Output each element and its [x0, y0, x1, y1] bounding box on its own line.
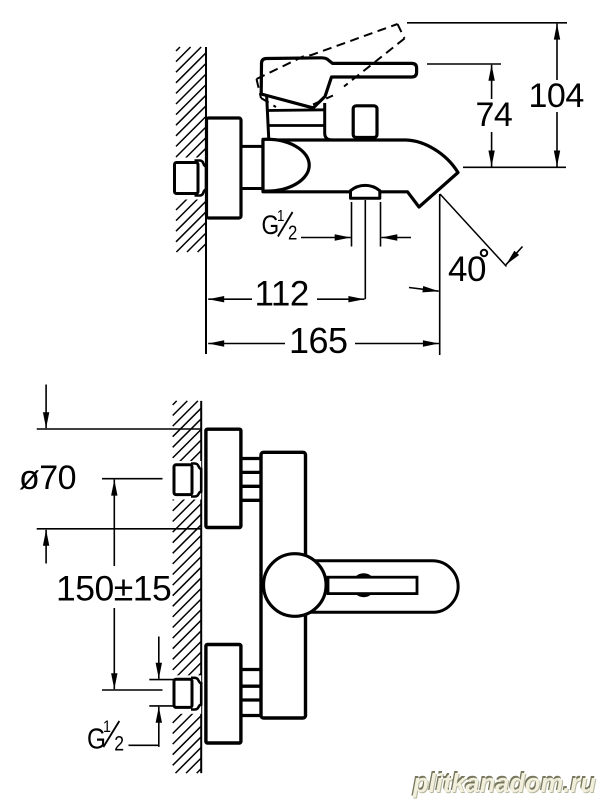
svg-text:2: 2	[114, 732, 123, 756]
svg-text:165: 165	[289, 320, 348, 361]
spout body (side)	[263, 140, 458, 207]
wall hatch (top view)	[176, 47, 206, 252]
wall hatch (front view)	[173, 401, 202, 773]
G1/2 inlet square (side)	[175, 163, 199, 194]
handle raised position (dashed)	[257, 24, 405, 107]
svg-text:1: 1	[277, 208, 284, 225]
white gaps for inlets	[172, 461, 202, 500]
dim 104 vertical	[556, 24, 558, 80]
lower inlet centerline	[102, 689, 163, 691]
40 deg angle line	[440, 194, 507, 267]
cartridge collar under handle	[267, 95, 269, 140]
esc bottom reference line	[37, 528, 202, 530]
svg-text:112: 112	[255, 275, 309, 314]
svg-text:74: 74	[476, 96, 513, 134]
G1/2 bottom: lower arrow	[158, 707, 160, 747]
40 deg leader arrows	[506, 247, 523, 265]
esc top reference line	[37, 428, 202, 430]
upper escutcheon	[206, 429, 241, 527]
spout tip extension vertical	[439, 194, 441, 355]
label G1/2 bottom	[87, 718, 124, 756]
lower inlet square	[174, 679, 192, 707]
G1/2 dim arrows	[301, 237, 351, 239]
lever grip plate	[328, 577, 417, 593]
upper inlet square	[174, 465, 192, 495]
dim 74 vertical	[491, 65, 493, 99]
label G1/2 top	[262, 208, 298, 244]
shower outlet centerline	[364, 200, 366, 299]
G1/2 inlet collar (side)	[195, 161, 207, 196]
svg-text:ø70: ø70	[19, 459, 76, 497]
G1/2 thread lines	[149, 679, 173, 681]
svg-text:150±15: 150±15	[56, 569, 171, 609]
extension line: lever top (74)	[427, 63, 501, 65]
extension line: spout bottom reference	[463, 166, 566, 168]
dim 165 line	[208, 343, 285, 345]
knob circle	[264, 554, 327, 617]
watermark plitkanadom.ru	[413, 772, 603, 798]
diverter knob	[357, 138, 373, 141]
dim 150 vertical	[113, 480, 115, 566]
body flange	[241, 146, 263, 188]
G1/2 extension lines	[351, 202, 353, 247]
shower outlet bump under body	[351, 185, 380, 198]
G1/2 leader	[129, 744, 159, 746]
lower connector bars	[241, 670, 261, 716]
extension line: raised handle top	[407, 22, 567, 24]
G1/2 bottom: upper arrow	[158, 637, 160, 679]
upper connector bars	[241, 459, 261, 501]
lever screw circle	[353, 575, 374, 596]
svg-text:1: 1	[103, 718, 111, 736]
upper inlet collar	[191, 464, 201, 497]
escutcheon (side view)	[207, 118, 242, 218]
svg-text:2: 2	[288, 221, 297, 244]
wall face line	[205, 47, 207, 354]
lower inlet collar	[191, 678, 201, 710]
dia70 arrows	[45, 385, 47, 429]
lower escutcheon	[206, 645, 241, 744]
wall face line	[200, 401, 202, 773]
upper inlet centerline	[102, 478, 163, 480]
handle block + lever (solid, rest position)	[261, 58, 416, 108]
dim 112 line	[208, 298, 252, 300]
lever (front view)	[294, 561, 458, 613]
body (front view)	[261, 452, 306, 718]
svg-text:104: 104	[529, 77, 584, 115]
dome (body left end cap)	[263, 139, 309, 191]
white gap for inlet	[173, 158, 205, 200]
svg-text:G: G	[262, 210, 279, 240]
svg-text:40: 40	[448, 250, 486, 289]
